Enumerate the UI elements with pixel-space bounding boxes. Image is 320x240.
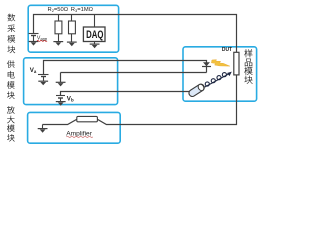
label 放大模块 (amplifier module): [7, 106, 15, 142]
svg-text:R3=1MΩ: R3=1MΩ: [71, 7, 94, 13]
resistor R3: [69, 15, 76, 43]
ground below Va: [38, 81, 48, 85]
svg-text:DUT: DUT: [222, 47, 233, 53]
svg-text:Va: Va: [30, 67, 37, 74]
wire: Vb to corona probe: [61, 92, 191, 97]
wire: main bus from Vapp to DUT top: [34, 15, 237, 53]
DUT sample bar: [234, 52, 239, 75]
wire: return from needle plane to ground: [61, 73, 207, 83]
module box: power supply (middle): [24, 58, 118, 105]
amplifier inline component: [77, 116, 98, 121]
label 数采模块 (data acquisition module): [7, 14, 15, 54]
module box: amplifier (bottom): [28, 112, 121, 143]
module box: data acquisition (top): [28, 5, 118, 52]
svg-text:R2=50Ω: R2=50Ω: [48, 7, 69, 13]
coil wire from probe to DUT: [205, 73, 230, 87]
svg-text:DAQ: DAQ: [86, 29, 104, 41]
voltage source Vapp (battery): [29, 34, 39, 42]
label Amplifier with red squiggle: [66, 131, 92, 138]
mid ground: [56, 82, 66, 86]
wire: amplifier line to DUT bottom: [43, 75, 237, 125]
label Vapp with red squiggle: [37, 36, 48, 42]
ground at amplifier input: [38, 125, 48, 133]
wire: Va to needle electrode: [44, 61, 207, 75]
DAQ unit U1: [83, 15, 105, 45]
ground below R2: [53, 42, 63, 46]
ground below DAQ: [90, 44, 100, 48]
voltage source Vb (battery): [56, 96, 65, 102]
resistor R2: [55, 15, 62, 42]
lightning bolt (corona discharge): [211, 60, 229, 66]
label 样品模块 (sample module): [244, 49, 252, 84]
corona probe (capsule): [188, 83, 206, 98]
ground below Vb: [56, 102, 66, 106]
ground below R3: [67, 42, 77, 46]
voltage source Va (battery): [38, 75, 49, 82]
needle electrode (diode symbol): [202, 62, 211, 66]
label 供电模块 (power supply module): [7, 60, 15, 99]
coil arrowhead: [227, 72, 232, 77]
ground below Vapp: [29, 42, 39, 46]
svg-text:Vb: Vb: [67, 96, 74, 103]
module box: sample (right): [183, 47, 257, 101]
